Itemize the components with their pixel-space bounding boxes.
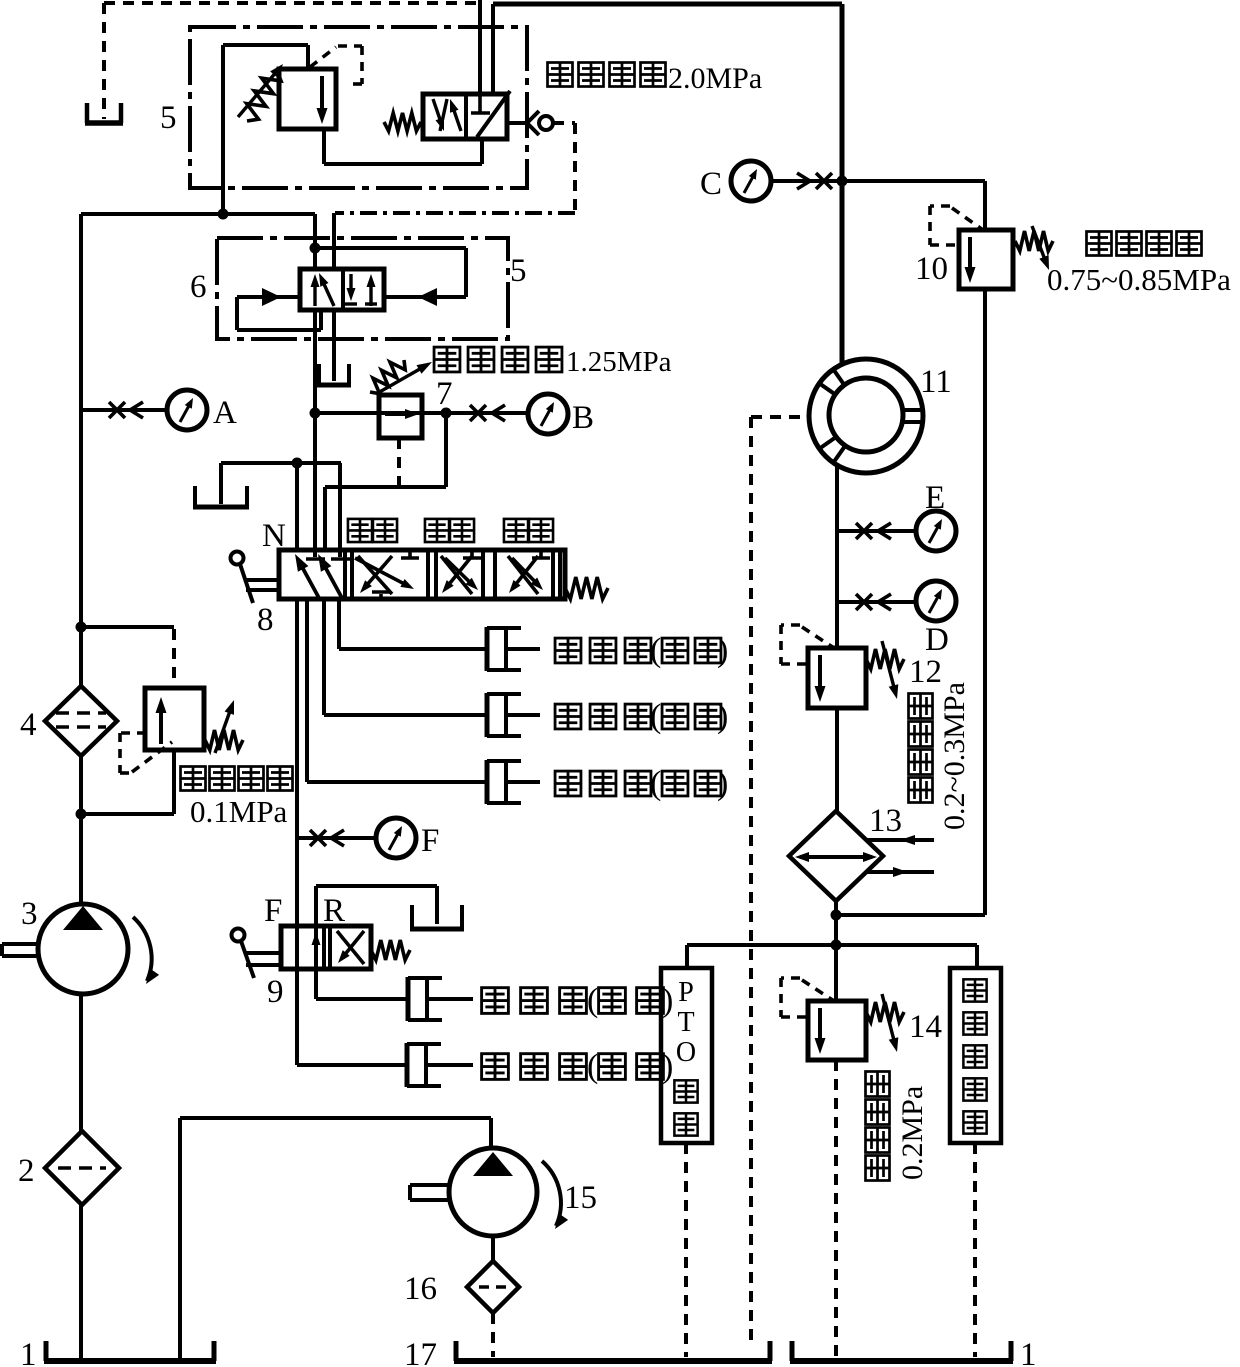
svg-text:1: 1 (1020, 1337, 1037, 1367)
wire gauge E stub (837, 529, 916, 533)
filter 4 diamond (45, 686, 117, 756)
relief valve 12 arrow (818, 655, 822, 689)
wire pump15 discharge (180, 1116, 491, 1120)
test point C cross (816, 173, 832, 189)
pump 3 rotation arc (133, 917, 152, 981)
svg-text:A: A (213, 395, 237, 431)
clutch gear3 cylinder (485, 760, 490, 804)
gearbox lube box (950, 968, 1001, 1143)
regulator valve 6 left arrows (313, 284, 316, 306)
pilot valve 5b divider (464, 94, 468, 139)
wire main horizontal y214 (81, 212, 315, 216)
label set pressure 10 (1087, 232, 1112, 256)
pilot valve 5b transition slash (477, 91, 510, 137)
test point E cross (856, 523, 872, 539)
wire valve8 port x315b (313, 413, 317, 557)
valve 9 R cross (337, 931, 364, 964)
pump 15 triangle (473, 1152, 513, 1176)
label clutch gear2 (555, 704, 581, 729)
wire dash-dot pilot y213 (335, 211, 575, 215)
wire relief5a outlet (322, 129, 326, 164)
relief valve 7 spring (370, 360, 405, 394)
wire main top (493, 2, 842, 7)
wire valve6 drain (332, 310, 336, 381)
relief valve 12 spring (866, 649, 904, 669)
wire valve14 drain dashed (834, 1060, 838, 1357)
filter 2 diamond (45, 1131, 119, 1205)
label clutch gear1 (555, 638, 581, 663)
valve 8 dividers (343, 550, 347, 599)
test point B cross (470, 405, 486, 421)
wire dashed drain top-left vertical (102, 3, 106, 119)
wire y915 (836, 913, 985, 917)
clutch forward cylinder (406, 977, 411, 1021)
svg-text:(: ( (587, 982, 598, 1019)
svg-text:): ) (662, 982, 673, 1019)
junction dot valve7 in (310, 408, 321, 419)
junction dot return (292, 458, 303, 469)
wire valve9 loop (316, 884, 437, 888)
wire filter13 out (834, 901, 838, 1003)
wire valve7 return (444, 413, 448, 487)
valve 8 gear3 symbols (508, 556, 538, 594)
label clutch gear3 (555, 771, 581, 796)
valve 9 lever (232, 929, 245, 942)
valve 9 body (281, 926, 371, 969)
wire box5 inlet drop (306, 45, 310, 71)
regulator valve 6 right arrows (349, 274, 352, 291)
wire valve7 drain dashed (397, 438, 401, 485)
wire valve6 pilot x334 (332, 213, 336, 271)
filter 2 dashes (58, 1166, 106, 1170)
enclosure box 5 border (190, 27, 527, 188)
pilot valve 5b left-cell arrows (433, 99, 441, 121)
torque converter outer (809, 359, 923, 473)
gauge C (731, 161, 771, 201)
test point D arrow (878, 594, 891, 610)
valve 8 gear2 symbols (441, 556, 472, 594)
svg-text:5: 5 (160, 100, 177, 136)
wire gearbox feed (975, 945, 979, 970)
svg-text:13: 13 (869, 803, 902, 839)
svg-text:): ) (717, 632, 728, 669)
svg-text:5: 5 (510, 253, 527, 289)
wire valve6 right loop (384, 295, 466, 299)
relief valve 4a pilot dashes (120, 731, 146, 735)
label clutch reverse (482, 1054, 509, 1080)
gauge B (528, 394, 568, 434)
label set pressure 1.25MPa (434, 347, 460, 372)
tank 1 (44, 1341, 49, 1361)
clutch gear2 cylinder (485, 693, 490, 737)
tank T6 below valve6 (317, 364, 321, 385)
clutch gear1 cylinder (485, 627, 490, 671)
reducing valve 10 body (959, 230, 1013, 289)
filter 16 diamond (467, 1261, 519, 1313)
tank T8 return (193, 486, 197, 507)
wire dashed pilot from ball (553, 121, 575, 125)
svg-text:1.25MPa: 1.25MPa (566, 346, 672, 378)
wire gauge A stub (81, 408, 167, 412)
test point A cross (109, 402, 125, 418)
label text set pressure 2.0MPa (548, 63, 573, 87)
valve 8 N blocked bars (306, 557, 325, 561)
wire y181 right (842, 179, 985, 183)
filter 13 stub out (866, 870, 934, 874)
wire PTO feed (685, 945, 689, 970)
label start pressure 0.1MPa (181, 767, 206, 791)
wire valve6 out x315 (313, 310, 317, 413)
relief valve 5a body (279, 69, 336, 129)
gauge E (916, 511, 956, 551)
svg-text:2.0MPa: 2.0MPa (668, 62, 762, 95)
wire valve6 left loop (237, 295, 300, 299)
wire PTO drain dashed (684, 1143, 688, 1357)
pump 3 shaft (2, 942, 40, 946)
junction dot box5 outlet (218, 209, 229, 220)
relief valve 5a arrow (320, 76, 324, 111)
wire gauge F stub (297, 836, 376, 840)
valve 9 spring (371, 940, 410, 960)
svg-text:0.2~0.3MPa: 0.2~0.3MPa (938, 682, 971, 830)
svg-text:0.1MPa: 0.1MPa (190, 794, 288, 829)
wire converter out (835, 464, 839, 650)
relief valve 14 pilot dashes (781, 976, 800, 980)
wire clutch reverse feed (297, 1063, 407, 1067)
test point F cross (310, 830, 326, 846)
svg-text:(: ( (650, 765, 661, 802)
tank 17 (454, 1341, 459, 1361)
valve 8 body (279, 550, 565, 599)
svg-text:T: T (677, 1007, 694, 1038)
filter 13 diamond (789, 811, 883, 901)
svg-text:15: 15 (564, 1180, 597, 1216)
torque converter inner (829, 378, 903, 452)
wire valve6 feed x315 (313, 214, 317, 271)
tank T9 (410, 905, 414, 929)
pilot valve 5b body (423, 94, 507, 139)
reducing valve 10 spring (1015, 231, 1053, 251)
label start pressure 14 rotated (866, 1156, 890, 1181)
svg-text:16: 16 (404, 1271, 437, 1307)
label set pressure 12 rotated (909, 778, 933, 803)
svg-text:4: 4 (20, 707, 37, 743)
relief valve 4a arrow (159, 710, 163, 744)
svg-text:O: O (676, 1037, 696, 1068)
relief valve 7 body (379, 395, 422, 438)
svg-text:C: C (700, 166, 722, 202)
relief valve 4a spring (205, 730, 243, 750)
svg-text:): ) (717, 698, 728, 735)
wire valve10 out (983, 289, 987, 915)
gauge A (167, 390, 207, 430)
svg-text:2: 2 (18, 1153, 35, 1189)
pump 15 rotation arc (542, 1161, 561, 1226)
relief valve 5a adjust arrow (238, 73, 276, 118)
relief valve 12 body (808, 648, 866, 708)
test point B arrow (492, 405, 505, 421)
wire main return x297 (295, 599, 299, 1065)
wire bypass bottom (172, 750, 176, 814)
svg-text:9: 9 (267, 974, 284, 1010)
test point E arrow (878, 523, 891, 539)
junction dot header (831, 940, 842, 951)
pilot valve 5b blocked port (478, 96, 482, 112)
junction dot bypass top (76, 622, 87, 633)
clutch reverse cylinder (405, 1043, 410, 1087)
wire box5 inlet top (223, 43, 308, 47)
wire gearbox drain dashed (973, 1143, 977, 1357)
wire gauge D stub (837, 600, 916, 604)
wire valve9 through (314, 886, 318, 999)
svg-text:F: F (421, 823, 439, 859)
svg-text:10: 10 (915, 251, 948, 287)
regulator valve 6 divider (341, 269, 345, 310)
svg-text:0.2MPa: 0.2MPa (896, 1086, 929, 1180)
relief valve 4a adjust arrow (215, 711, 230, 754)
wire lube header (687, 943, 977, 947)
relief valve 5a spring (247, 70, 281, 121)
wire main right riser x842 (840, 4, 845, 364)
svg-text:(: ( (587, 1048, 598, 1085)
filter 4 dashes (56, 711, 106, 715)
regulator valve 6 body (300, 269, 384, 310)
relief valve 14 spring (866, 1002, 904, 1022)
pilot valve 5b spring (384, 113, 421, 131)
pump 15 shaft (410, 1183, 450, 1187)
relief valve 14 body (808, 1001, 866, 1060)
svg-text:): ) (717, 765, 728, 802)
wire dashed drain top horizontal (104, 1, 480, 5)
torque converter spokes (819, 383, 835, 395)
valve 8 lever (231, 552, 244, 565)
wire valve7 line y413 (315, 411, 528, 415)
wire solenoid top lines (478, 0, 482, 96)
relief valve 7 arrow (385, 412, 408, 416)
test point C arrow (797, 173, 810, 189)
svg-text:P: P (678, 977, 694, 1008)
reducing valve 10 arrow (968, 237, 972, 270)
junction dot bypass bottom (76, 809, 87, 820)
wire clutch1 feed (337, 599, 341, 649)
filter 13 inner arrow (800, 855, 872, 859)
label gear1 (348, 519, 372, 542)
reducing valve 10 pilot dashes (930, 204, 950, 208)
PTO box (661, 968, 712, 1143)
valve6 right loop arrow (418, 288, 437, 306)
wire valve8 port x297 (295, 463, 299, 552)
svg-text:0.75~0.85MPa: 0.75~0.85MPa (1047, 262, 1231, 297)
wire bypass dashed drop (172, 629, 176, 688)
wire filter16 drain dashed (491, 1313, 495, 1357)
wire left trunk x81 (79, 214, 83, 688)
reducing valve 10 adjust arrow (1032, 226, 1045, 260)
pump 3 circle (38, 904, 128, 994)
wire pilot valve outlet (507, 121, 528, 125)
wire clutch2 feed (322, 599, 326, 715)
test point D cross (856, 594, 872, 610)
filter 13 stub in (866, 838, 934, 842)
test point A arrow (130, 402, 143, 418)
valve 8 gear1 symbols (358, 556, 392, 594)
label gear3 (504, 519, 528, 542)
wire box5 inlet riser x223 (221, 45, 225, 214)
junction dot y915 (831, 910, 842, 921)
svg-text:(: ( (650, 632, 661, 669)
pump 15 circle (449, 1148, 537, 1236)
svg-text:3: 3 (21, 896, 38, 932)
relief valve 14 arrow (818, 1008, 822, 1041)
relief valve 7 adjust arrow (376, 368, 422, 394)
wire pump15 suction (491, 1237, 495, 1263)
svg-text:11: 11 (920, 364, 952, 400)
filter 16 dash (479, 1285, 507, 1289)
gauge D (916, 581, 956, 621)
wire tank drop x221 (219, 463, 223, 504)
valve 8 spring (565, 577, 608, 599)
svg-text:D: D (925, 622, 949, 658)
svg-text:17: 17 (404, 1337, 437, 1367)
wire bypass top (81, 625, 174, 629)
wire converter drain dashed (751, 415, 808, 419)
svg-text:): ) (662, 1048, 673, 1085)
junction dot valve6 top (310, 243, 321, 254)
gauge F (376, 818, 416, 858)
svg-text:1: 1 (20, 1337, 37, 1367)
valve 9 F arrow (314, 942, 318, 964)
label gear2 (425, 519, 449, 542)
svg-text:E: E (925, 480, 945, 516)
relief valve 12 pilot dashes (781, 623, 800, 627)
enclosure box 6 border (217, 238, 508, 339)
svg-text:(: ( (650, 698, 661, 735)
relief valve 12 adjust arrow (882, 641, 894, 688)
relief valve 14 adjust arrow (882, 994, 894, 1041)
tank T0 top-left (85, 103, 90, 123)
valve 8 N arrows (302, 566, 320, 598)
label clutch forward (482, 988, 509, 1014)
junction dot valve7 out (441, 408, 452, 419)
junction dot C (837, 176, 848, 187)
wire return y463 (221, 461, 341, 465)
check ball valve (527, 111, 539, 123)
relief valve 4a body (145, 688, 204, 750)
wire valve8 port x340 (338, 463, 342, 557)
valve6 left loop arrow (262, 288, 281, 306)
valve 9 divider (322, 926, 326, 969)
label gearbox lube (963, 979, 986, 1001)
wire clutch3 feed (305, 599, 309, 782)
wire valve12 out (835, 708, 839, 814)
svg-text:14: 14 (909, 1009, 942, 1045)
svg-text:B: B (572, 400, 594, 436)
svg-text:6: 6 (190, 269, 207, 305)
pump 3 triangle (63, 906, 103, 930)
wire valve10 feed (983, 181, 987, 232)
svg-text:7: 7 (436, 376, 453, 412)
test point F arrow (331, 830, 344, 846)
tank 1 right (790, 1341, 795, 1361)
wire gauge C stub (771, 179, 842, 183)
svg-text:8: 8 (257, 602, 274, 638)
relief valve 5a pilot dashes (310, 47, 336, 67)
